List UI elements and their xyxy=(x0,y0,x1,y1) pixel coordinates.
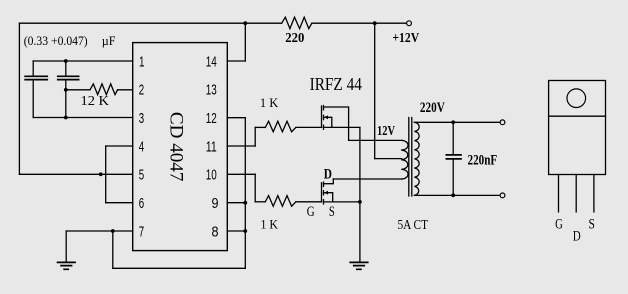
wire pin14 vertical to rail xyxy=(244,23,246,61)
wire secondary top xyxy=(414,121,500,123)
svg-text:3: 3 xyxy=(139,111,144,127)
svg-text:(0.33 +0.047): (0.33 +0.047) xyxy=(24,34,88,48)
svg-text:G: G xyxy=(307,204,315,220)
TO-220 tab separator xyxy=(549,115,606,117)
ground left xyxy=(57,262,76,269)
wire ground bus down xyxy=(112,231,114,268)
wire pin9 stub xyxy=(227,202,245,204)
wire +12V vertical xyxy=(374,23,376,158)
capacitor C2 bottom lead xyxy=(65,80,67,118)
transistor Q1 gate bar xyxy=(321,106,323,127)
svg-text:S: S xyxy=(589,216,595,232)
svg-text:11: 11 xyxy=(206,139,217,155)
TO-220 package outline xyxy=(549,81,606,175)
wire to 1K bottom xyxy=(255,201,265,203)
capacitor 220nF top lead xyxy=(452,122,454,155)
capacitor 220nF bottom lead xyxy=(452,159,454,195)
wire right ground bus vertical xyxy=(244,118,246,269)
wire Q2 drain to primary bottom xyxy=(333,178,401,180)
capacitor C1 plates xyxy=(24,76,48,79)
wire left ground lead xyxy=(65,231,67,262)
node junction dot cap bottom xyxy=(451,193,455,197)
wire 12K left xyxy=(66,89,90,91)
svg-text:220nF: 220nF xyxy=(468,152,498,168)
TO-220 mounting hole xyxy=(567,89,586,108)
svg-text:D: D xyxy=(324,166,332,182)
wire pin11 vertical up xyxy=(254,127,256,146)
node junction dot cap top xyxy=(451,120,455,124)
transistor Q2 source lead xyxy=(324,201,360,203)
terminal output top xyxy=(500,120,505,125)
transistor Q1 source lead xyxy=(324,126,360,128)
svg-text:9: 9 xyxy=(212,196,219,212)
transistor Q2 body connection xyxy=(324,193,333,202)
svg-text:1 K: 1 K xyxy=(260,95,279,110)
wire Q1 source to ground xyxy=(359,127,361,262)
wire top rail to resistor R220 xyxy=(245,22,281,24)
TO-220 gate leg xyxy=(558,175,560,212)
capacitor C2 top lead xyxy=(65,61,67,76)
svg-text:12V: 12V xyxy=(377,124,395,139)
wire pin8 stub xyxy=(227,230,245,232)
capacitor C1 top lead xyxy=(32,61,34,76)
svg-text:+12V: +12V xyxy=(392,31,419,46)
wire pin11 stub xyxy=(227,145,255,147)
transistor Q2 gate bar xyxy=(321,183,323,202)
wire 12K to pin2 xyxy=(118,89,133,91)
svg-text:10: 10 xyxy=(206,168,217,184)
node junction dot pin14 rail xyxy=(243,21,247,25)
capacitor C2 plates xyxy=(57,76,80,79)
svg-text:CD 4047: CD 4047 xyxy=(165,112,185,182)
node junction dot +12V rail xyxy=(373,21,377,25)
wire junction to +12V terminal xyxy=(375,22,407,24)
wire pin7 horizontal xyxy=(66,230,133,232)
op-amp U1 CD4047 body xyxy=(133,43,228,251)
wire secondary bottom xyxy=(414,194,500,196)
wire pin4 stub xyxy=(106,145,133,147)
svg-text:8: 8 xyxy=(212,224,219,240)
node junction dot pin9 xyxy=(243,201,247,205)
terminal output bottom xyxy=(500,193,505,198)
ground right xyxy=(349,262,368,269)
resistor 1K bottom xyxy=(265,196,296,207)
transformer T1 core xyxy=(409,118,412,197)
svg-text:14: 14 xyxy=(206,54,217,70)
wire center tap xyxy=(375,158,402,160)
svg-text:1 K: 1 K xyxy=(261,216,279,231)
wire 1K top to gate Q1 xyxy=(296,126,322,128)
node junction dot pin8 xyxy=(243,229,247,233)
wire left supply vertical xyxy=(18,23,20,174)
svg-text:µF: µF xyxy=(102,34,116,48)
resistor 1K top xyxy=(265,121,296,132)
svg-text:220: 220 xyxy=(285,31,304,46)
TO-220 drain leg xyxy=(575,175,577,212)
transistor Q1 body connection xyxy=(324,117,332,127)
wire to 1K top xyxy=(255,126,265,128)
node junction dot C2 / 12K xyxy=(64,88,68,92)
svg-text:D: D xyxy=(573,229,581,245)
resistor 12K xyxy=(90,84,118,95)
node junction dot C2 bottom xyxy=(64,116,68,120)
node +12V top rail left segment xyxy=(19,22,245,24)
svg-text:IRFZ 44: IRFZ 44 xyxy=(310,74,362,94)
transistor Q2 channel segments xyxy=(323,182,325,204)
wire resistor to +12V junction xyxy=(312,22,375,24)
svg-text:1: 1 xyxy=(139,54,145,70)
wire pin1 horizontal xyxy=(33,60,133,62)
transistor Q2 body arrow xyxy=(324,191,328,195)
node junction dot C2 top xyxy=(64,59,68,63)
svg-text:7: 7 xyxy=(139,224,144,240)
wire pin5 horizontal xyxy=(19,173,132,175)
capacitor 220nF plates xyxy=(446,155,462,159)
svg-text:S: S xyxy=(329,204,335,220)
wire pin10 stub xyxy=(227,173,255,175)
transistor Q2 drain lead xyxy=(324,179,334,184)
resistor 220 xyxy=(282,17,312,28)
svg-text:2: 2 xyxy=(139,83,144,99)
transistor Q1 channel segments xyxy=(323,106,325,130)
svg-text:12 K: 12 K xyxy=(81,94,110,109)
wire Q1 drain to primary top xyxy=(349,139,402,141)
wire pin14 stub xyxy=(227,60,245,62)
capacitor C1 bottom lead xyxy=(32,80,34,118)
node junction dot pin5 xyxy=(99,172,103,176)
wire pins 4-5-6 vertical xyxy=(105,146,107,203)
svg-text:220V: 220V xyxy=(420,100,445,116)
terminal +12V xyxy=(407,21,412,26)
transformer T1 primary winding xyxy=(401,140,408,179)
svg-text:4: 4 xyxy=(139,139,144,155)
wire ground bus bottom xyxy=(113,267,246,269)
transistor Q1 body arrow xyxy=(324,115,328,119)
transistor Q1 drain lead xyxy=(324,107,349,140)
svg-text:13: 13 xyxy=(206,83,217,99)
transformer T1 secondary winding xyxy=(414,122,419,195)
svg-text:6: 6 xyxy=(139,196,144,212)
node junction dot pin7 xyxy=(111,229,115,233)
wire pin3 horizontal xyxy=(33,117,133,119)
wire 1K bottom to gate Q2 xyxy=(296,201,322,203)
wire pin12 stub xyxy=(227,117,245,119)
svg-text:G: G xyxy=(555,216,563,232)
wire pin6 stub xyxy=(106,202,133,204)
svg-text:5A CT: 5A CT xyxy=(398,218,429,233)
svg-text:5: 5 xyxy=(139,168,144,184)
node junction dot Q2 source xyxy=(358,200,362,204)
svg-text:12: 12 xyxy=(206,111,217,127)
wire pin10 vertical down xyxy=(254,174,256,202)
TO-220 source leg xyxy=(593,175,595,212)
